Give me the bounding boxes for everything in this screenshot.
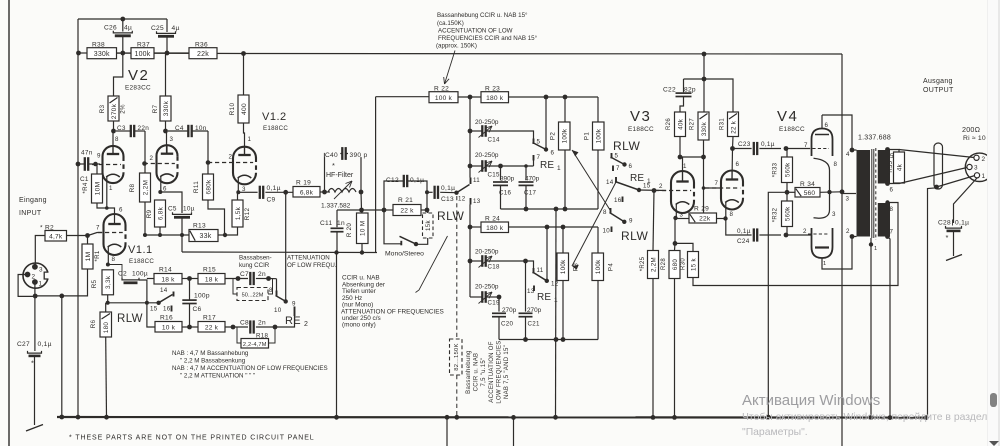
wire XLR pin3 to R2 [35, 236, 45, 267]
wire C3 to R8 [144, 131, 146, 173]
svg-text:560k: 560k [784, 162, 791, 177]
svg-text:Mono/Stereo: Mono/Stereo [385, 251, 424, 258]
wire ground-left vertical x78 [77, 19, 79, 417]
svg-text:OUTPUT: OUTPUT [923, 87, 954, 94]
contact 7 mid [612, 166, 614, 172]
wire R9 bottom [159, 227, 161, 235]
svg-text:NAB 7,5 "AND 15": NAB 7,5 "AND 15" [504, 345, 510, 399]
svg-text:R28: R28 [661, 258, 667, 270]
switch RLW blade 5-6 mid [611, 153, 613, 159]
capacitor C9 0.1u [245, 191, 258, 193]
chassis stroke C27 [26, 425, 43, 432]
svg-text:6: 6 [736, 161, 740, 168]
leader arrow to R22 [445, 51, 456, 85]
wire XLR pin2 bracket [18, 275, 35, 297]
wire R38-R37 [117, 52, 132, 54]
svg-text:R8: R8 [129, 183, 136, 192]
svg-text:4µ: 4µ [172, 25, 180, 32]
wire pin6 to R35 [888, 182, 900, 185]
contact 13 low [533, 286, 535, 292]
wire R17 to C8 [225, 326, 248, 328]
wire R5 bottom [107, 295, 109, 303]
trafo secondary pin7 [885, 234, 890, 239]
wire R29 right pin8 [717, 218, 726, 220]
svg-text:2: 2 [659, 183, 663, 190]
wire R13 right node [218, 234, 225, 236]
svg-text:6: 6 [890, 187, 894, 194]
svg-text:Ausgang: Ausgang [923, 78, 953, 85]
wire R3 to C3 node [113, 121, 115, 131]
svg-text:C21: C21 [528, 321, 541, 328]
svg-text:1: 1 [39, 281, 43, 288]
switch RLW blade 11-12 [440, 191, 456, 193]
trafo secondary pin6 [885, 181, 890, 186]
wire P2 bottom [564, 150, 566, 209]
svg-text:NAB : 4,7 M Bassanhebung: NAB : 4,7 M Bassanhebung [172, 350, 249, 357]
svg-text:C28: C28 [938, 220, 951, 227]
tube V1.2 triode [233, 147, 256, 185]
svg-text:C14: C14 [488, 137, 501, 144]
bus dots lower mid [334, 415, 339, 420]
wire R15 to C7 [225, 278, 248, 280]
svg-text:15k: 15k [425, 219, 432, 230]
wire grid V4b [786, 234, 812, 236]
svg-text:R14: R14 [159, 267, 172, 274]
svg-text:560k: 560k [784, 206, 791, 221]
node C24/R32/grid2 [784, 233, 789, 238]
svg-text:R30: R30 [681, 258, 687, 270]
wire below bus x513 [513, 417, 515, 446]
svg-text:*R33: *R33 [773, 162, 779, 177]
svg-text:6: 6 [119, 207, 123, 214]
svg-text:8: 8 [269, 287, 273, 294]
svg-text:7: 7 [715, 180, 719, 187]
bus dots left [59, 415, 64, 420]
svg-text:RE: RE [537, 292, 551, 303]
resistor R12 1.5k [232, 200, 243, 227]
svg-text:V1.2: V1.2 [262, 111, 287, 123]
wire grid V3a [639, 189, 666, 192]
wire P4 bottom [597, 280, 599, 340]
svg-text:*R4: *R4 [82, 182, 89, 193]
trimmer dashed 50-22M [233, 279, 238, 295]
svg-text:20-250p: 20-250p [475, 152, 499, 159]
ground rail top (C26/C25) [78, 18, 167, 20]
output wire hot [899, 150, 974, 158]
svg-text:2: 2 [150, 155, 154, 162]
watermark Activate Windows [742, 392, 880, 409]
svg-text:20-250p: 20-250p [475, 119, 499, 126]
svg-text:1: 1 [823, 261, 827, 267]
node C23/R33/grid [784, 146, 789, 151]
svg-text:C24: C24 [737, 238, 750, 245]
svg-text:*R25: *R25 [640, 256, 646, 271]
wire HF right down [360, 192, 363, 210]
contact 7 [533, 155, 535, 161]
tube V3b [721, 171, 743, 210]
node x470 top [468, 95, 473, 100]
svg-text:C23: C23 [738, 141, 751, 148]
output connector XLR [965, 153, 993, 181]
wire R10 to V1.2 anode [244, 123, 245, 155]
node P2 top [563, 95, 568, 100]
grid stub V3b [704, 187, 720, 189]
svg-text:180: 180 [103, 322, 110, 334]
wire C7 right [256, 278, 269, 280]
trafo pin2 [850, 234, 855, 239]
node R33/R34/R32 [786, 183, 788, 202]
node R37/R36/C25 [165, 51, 170, 56]
svg-text:11: 11 [473, 177, 480, 184]
node C4/anode V2b [163, 129, 168, 134]
svg-text:C20: C20 [501, 321, 514, 328]
wire R4 top [96, 164, 98, 174]
svg-text:680: 680 [672, 259, 679, 270]
svg-text:100p: 100p [194, 293, 210, 300]
svg-text:10M: 10M [94, 182, 101, 196]
svg-text:R12: R12 [244, 208, 251, 221]
wire R24 right y227 [509, 226, 599, 228]
node pin3/R12 [236, 190, 240, 194]
wire R7 top [165, 53, 167, 96]
svg-text:13: 13 [473, 198, 481, 205]
trafo secondary pin5 [885, 147, 890, 152]
switch RE1 low contact11 [526, 261, 534, 268]
svg-text:*R32: *R32 [773, 207, 779, 222]
svg-text:LOW FREQUENCIES: LOW FREQUENCIES [497, 340, 503, 403]
svg-text:8: 8 [115, 136, 119, 143]
wire R7 to C4 node [165, 121, 167, 131]
resistor R25 2.2M [653, 191, 654, 251]
svg-text:6: 6 [629, 163, 633, 170]
svg-text:1: 1 [982, 173, 986, 180]
svg-text:R 19: R 19 [296, 180, 311, 187]
transformer secondary upper [878, 150, 890, 184]
svg-text:2: 2 [32, 274, 36, 281]
svg-text:R3: R3 [99, 104, 106, 113]
svg-text:7: 7 [890, 229, 894, 236]
svg-text:R13: R13 [193, 223, 206, 230]
svg-text:Eingang: Eingang [19, 197, 47, 204]
wire P3 top [562, 227, 564, 253]
svg-text:13: 13 [527, 288, 535, 295]
svg-text:82...150K: 82...150K [454, 343, 460, 371]
wire R1 bottom [35, 269, 87, 296]
svg-text:RLW: RLW [437, 209, 464, 223]
wire R16 left [147, 303, 155, 327]
svg-text:4: 4 [846, 151, 850, 158]
wire pin7 down [888, 237, 891, 418]
svg-text:R11: R11 [193, 181, 200, 193]
trafo pin4 [850, 148, 855, 153]
svg-text:R15: R15 [203, 267, 216, 274]
svg-text:2: 2 [229, 154, 233, 161]
svg-text:22k: 22k [699, 216, 711, 223]
svg-text:6: 6 [551, 150, 555, 157]
wire contact12mid riser [546, 227, 548, 281]
wire R3 top [114, 53, 123, 96]
wire y97 rail [376, 96, 429, 98]
scrollbar down arrow [989, 441, 999, 446]
svg-text:20-250p: 20-250p [475, 284, 499, 291]
svg-text:2: 2 [803, 228, 807, 235]
svg-text:V3: V3 [630, 108, 651, 125]
wire R5 node line [108, 302, 159, 304]
svg-text:0,1µ: 0,1µ [441, 185, 455, 192]
wire R12 top [237, 192, 239, 200]
blade 11-12 low [533, 272, 547, 281]
left frame border [8, 0, 10, 446]
node contact6 riser [544, 95, 549, 100]
node pin1/C27 [33, 294, 38, 299]
svg-text:6,8k: 6,8k [157, 206, 164, 220]
wire R37-R36 [154, 52, 189, 54]
node C2/R14 drop [145, 301, 149, 305]
svg-text:1: 1 [874, 246, 878, 252]
svg-text:1.337.688: 1.337.688 [858, 135, 891, 142]
svg-text:C5: C5 [168, 206, 177, 213]
svg-text:R10: R10 [229, 103, 236, 116]
svg-text:11: 11 [537, 267, 544, 274]
wire V3b pin8 to C24 [726, 219, 752, 236]
svg-text:9: 9 [97, 153, 101, 160]
svg-text:18 k: 18 k [161, 276, 175, 283]
svg-text:V2: V2 [128, 67, 149, 84]
wire V4b anode to trafo pin2 [822, 237, 852, 270]
svg-text:E188CC: E188CC [628, 126, 654, 133]
svg-text:C6: C6 [193, 306, 202, 313]
wire y79 spur [684, 79, 734, 112]
svg-text:R6: R6 [90, 319, 97, 328]
svg-text:100k: 100k [595, 259, 602, 274]
wire ground drop x336 [336, 253, 338, 418]
wire below bus x447 [446, 417, 448, 446]
svg-text:22 k: 22 k [400, 208, 414, 215]
contact 13 [470, 198, 472, 205]
contact 8 blade 9 [610, 208, 612, 214]
svg-text:RE: RE [630, 173, 644, 184]
resistor R1 1M [82, 244, 93, 269]
capacitor C13 0.1u [425, 190, 429, 194]
svg-text:100k: 100k [135, 51, 151, 58]
wire R1 top [87, 236, 89, 245]
chassis stroke C28 [946, 255, 962, 261]
svg-text:C9: C9 [267, 197, 276, 204]
tube V4b arch [812, 228, 833, 258]
tube V1.1 triode [104, 214, 126, 255]
svg-text:P4: P4 [608, 263, 615, 271]
wire C2 right to R14 [139, 280, 147, 303]
svg-text:C26: C26 [104, 25, 117, 32]
svg-text:1: 1 [647, 178, 651, 185]
svg-text:3: 3 [39, 267, 43, 274]
svg-text:C1: C1 [80, 176, 89, 183]
svg-text:FREQUENCIES CCIR and NAB 15: FREQUENCIES CCIR and NAB 15° [438, 35, 538, 42]
wire C15 right [486, 165, 534, 167]
wire V2b cathode to R9 [159, 191, 162, 193]
svg-text:(approx. 150K): (approx. 150K) [436, 43, 477, 50]
svg-text:OF LOW FREQU.: OF LOW FREQU. [287, 262, 337, 269]
svg-text:390 p: 390 p [350, 152, 368, 159]
svg-text:8: 8 [603, 209, 607, 216]
svg-text:(mono only): (mono only) [342, 322, 376, 329]
node C1 left [76, 162, 81, 167]
svg-text:7: 7 [616, 165, 620, 172]
bus dots mid [553, 415, 558, 420]
wire R2 to grid V1.1 [67, 233, 103, 236]
wire C4 to R11 [207, 131, 209, 174]
node B+ / R34 / trafo3 [840, 189, 845, 194]
wire ground drop x556 [555, 209, 558, 417]
svg-text:*: * [332, 161, 335, 170]
svg-text:16: 16 [614, 197, 622, 204]
svg-text:2n: 2n [258, 271, 266, 278]
svg-text:1: 1 [557, 165, 561, 172]
wire R26 bottom [679, 137, 681, 158]
svg-text:R9: R9 [146, 209, 153, 218]
cable shield capsule [934, 143, 943, 189]
svg-text:33k: 33k [200, 233, 212, 240]
input connector XLR [23, 263, 48, 288]
wire y209 [501, 208, 599, 210]
node HF left [322, 190, 327, 195]
resistor 15k dashed [423, 213, 434, 238]
feedback wire y252 [182, 251, 377, 254]
svg-text:47n: 47n [81, 150, 93, 157]
wire V3a cathode pin3 [673, 216, 677, 220]
wire R12 bottom [225, 227, 238, 235]
wire R10 top [243, 54, 245, 96]
svg-text:4k: 4k [896, 163, 903, 171]
switch Mono/Stereo [384, 210, 401, 244]
wire shield down [928, 188, 937, 418]
svg-text:2,2-4,7M: 2,2-4,7M [243, 342, 267, 348]
svg-text:3: 3 [974, 165, 978, 172]
wire cathode node down [674, 218, 676, 243]
wire P3 bottom [562, 280, 564, 340]
wire ground drop x61 [61, 296, 63, 417]
svg-text:C15: C15 [488, 172, 501, 179]
node R1 top [85, 233, 90, 238]
svg-text:Bassabsen-: Bassabsen- [239, 255, 272, 262]
node C3/anode V2a [111, 129, 116, 134]
wiper P2 to contact8 diagonal [572, 150, 611, 212]
node R10 top [241, 51, 246, 56]
svg-text:10: 10 [274, 307, 282, 314]
svg-text:0,1µ: 0,1µ [267, 185, 281, 192]
svg-text:400: 400 [241, 103, 248, 115]
inductor HF filter [328, 189, 356, 193]
svg-text:3: 3 [680, 212, 684, 219]
svg-text:R 29: R 29 [694, 206, 709, 213]
node R21 left [382, 208, 387, 213]
svg-text:V4: V4 [777, 108, 798, 125]
wire P2 top drop [564, 97, 566, 122]
svg-text:RLW: RLW [117, 313, 143, 325]
svg-text:R5: R5 [91, 279, 98, 288]
svg-text:C22: C22 [663, 87, 676, 94]
contact 14 [615, 177, 617, 183]
wire shield to pin1 [937, 176, 976, 188]
svg-text:" 2,2 M Bassabsenkung: " 2,2 M Bassabsenkung [180, 358, 246, 365]
svg-text:2,2M: 2,2M [650, 257, 657, 272]
svg-text:(ca.150K): (ca.150K) [437, 20, 464, 27]
svg-text:14: 14 [160, 287, 168, 294]
trafo secondary pin8 [885, 200, 889, 204]
svg-text:C7: C7 [240, 271, 249, 278]
wire C14 right to contact5 [486, 131, 534, 139]
svg-text:4µ: 4µ [124, 25, 132, 32]
wire P1 top drop [597, 97, 599, 122]
node y235 wire [143, 234, 189, 236]
resistor 82-150K dashed [450, 339, 463, 375]
svg-text:E283CC: E283CC [125, 85, 151, 92]
scrollbar thumb [990, 393, 997, 407]
svg-text:200Ω: 200Ω [962, 125, 981, 134]
svg-text:20-250p: 20-250p [475, 249, 499, 256]
svg-text:8: 8 [890, 206, 894, 213]
node C9/R22riser [283, 190, 288, 195]
svg-text:*R35: *R35 [888, 160, 894, 175]
svg-text:C25: C25 [151, 25, 164, 32]
node B+ rail x704 [702, 52, 707, 57]
svg-text:1.337.582: 1.337.582 [321, 203, 351, 210]
wire P1 bottom [597, 150, 599, 209]
transformer secondary lower [878, 203, 890, 237]
wire R16-R17 [182, 326, 198, 328]
wire riser to R22 [375, 97, 377, 253]
cathode bracket V4 [814, 158, 830, 218]
svg-text:18 k: 18 k [205, 276, 219, 283]
svg-text:R16: R16 [160, 315, 173, 322]
svg-text:22 k: 22 k [205, 324, 219, 331]
tube V4a arch [812, 129, 833, 157]
switch RE1 contact 5 blade 6 [533, 139, 535, 145]
trafo center tap 1 [870, 238, 872, 418]
svg-text:C19: C19 [488, 300, 501, 307]
wire V4a anode to trafo pin4 [822, 115, 852, 150]
node C15/C16 [498, 164, 503, 169]
wire R11 bottom jog [208, 200, 225, 235]
svg-text:10: 10 [603, 228, 611, 235]
svg-text:5: 5 [615, 153, 619, 160]
svg-text:*: * [946, 233, 949, 242]
tube V2a triode [103, 146, 124, 183]
node shield [934, 185, 939, 190]
svg-text:15: 15 [150, 306, 158, 313]
svg-text:8: 8 [730, 211, 734, 218]
svg-text:560: 560 [804, 190, 816, 197]
svg-text:7,5 "u.15": 7,5 "u.15" [481, 358, 487, 387]
node grid/R4 [93, 162, 98, 167]
wire R6 bottom [105, 337, 108, 417]
wire V2a cathode to V1.1 anode [107, 208, 115, 215]
svg-text:R7: R7 [152, 104, 159, 113]
wire R19 to HF filter [320, 191, 330, 193]
node C6 bottom [187, 325, 192, 330]
svg-text:50...22M: 50...22M [242, 293, 264, 299]
svg-text:100µ: 100µ [132, 271, 148, 278]
node ground drop x61 [59, 294, 64, 299]
wire to R28 top [674, 243, 677, 250]
svg-text:100k: 100k [562, 128, 569, 143]
svg-text:8: 8 [112, 256, 116, 263]
svg-text:R17: R17 [203, 315, 216, 322]
svg-text:6,8k: 6,8k [300, 189, 314, 196]
contact 16 [622, 197, 624, 203]
wire R31 bottom [732, 137, 735, 149]
svg-text:100k: 100k [596, 128, 603, 143]
